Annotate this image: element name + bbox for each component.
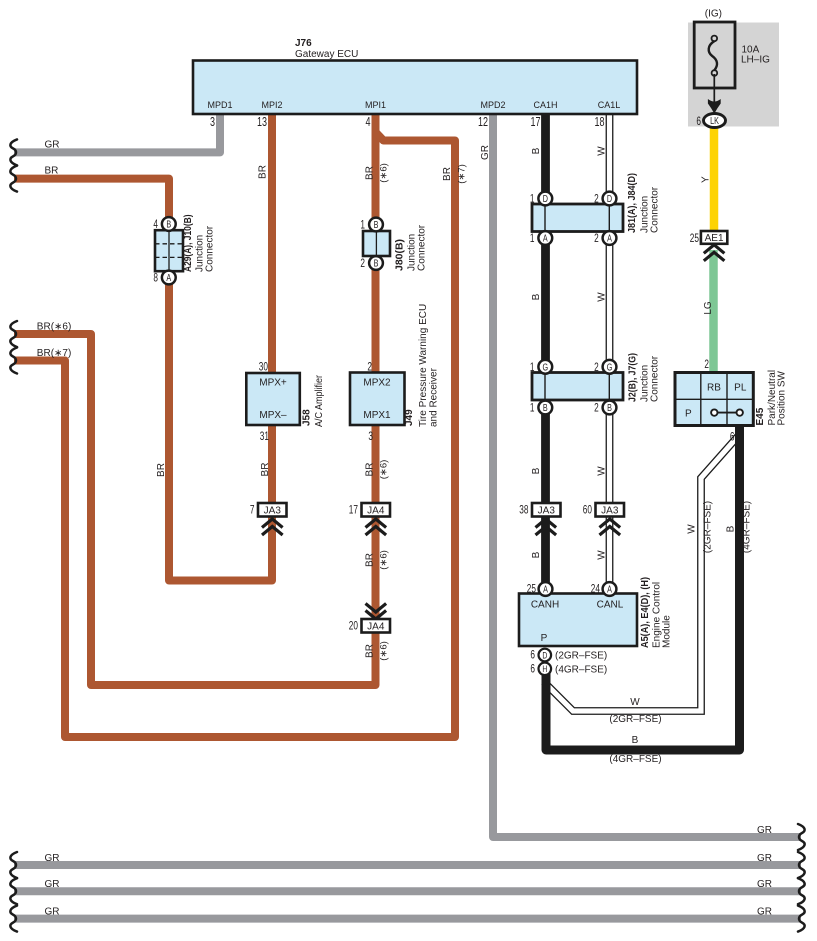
svg-text:A: A (166, 272, 171, 283)
svg-text:GR: GR (45, 906, 60, 917)
wire GR from MPD1 to left edge (14, 114, 220, 152)
wire BR(*7) branch from MPI1 down around to left edge (14, 126, 455, 737)
svg-text:J58: J58 (302, 409, 313, 426)
junction connector J2(B), J7(G) (530, 353, 661, 415)
svg-text:Connector: Connector (650, 355, 661, 402)
svg-text:60: 60 (583, 504, 593, 517)
svg-text:Module: Module (662, 615, 673, 648)
svg-text:A5(A), E4(D), (H): A5(A), E4(D), (H) (640, 577, 651, 648)
svg-text:(∗6): (∗6) (379, 460, 390, 480)
svg-text:2: 2 (360, 258, 365, 271)
svg-text:Y: Y (701, 176, 712, 183)
svg-text:MPX2: MPX2 (363, 378, 391, 389)
svg-text:38: 38 (519, 504, 529, 517)
svg-text:B: B (374, 219, 379, 230)
svg-text:2: 2 (367, 361, 372, 374)
svg-text:D: D (542, 650, 547, 660)
svg-text:W: W (687, 524, 698, 534)
connector AE1 (25) (690, 231, 728, 245)
svg-text:3: 3 (210, 116, 215, 130)
svg-text:BR(∗6): BR(∗6) (37, 321, 72, 332)
wire B J81 to J2 (541, 231, 550, 374)
wire BR MPI2 to J58 (268, 114, 276, 374)
svg-text:(∗6): (∗6) (379, 641, 390, 661)
svg-text:LH–IG: LH–IG (741, 55, 770, 66)
svg-text:A29(A), J10(B): A29(A), J10(B) (183, 215, 194, 273)
wire W J81 to J2 (606, 231, 614, 374)
wire BR JA4(17) to JA4(20) (372, 515, 380, 620)
svg-text:B: B (531, 551, 542, 558)
junction connector A29(A), J10(B) (153, 215, 215, 285)
svg-text:1: 1 (530, 233, 535, 246)
svg-text:1: 1 (530, 362, 535, 375)
wire B J2 to JA3(38) (541, 400, 550, 505)
svg-text:JA3: JA3 (601, 506, 619, 517)
svg-text:D: D (607, 193, 612, 204)
connector JA3 (38) (519, 503, 560, 517)
svg-text:GR: GR (480, 145, 491, 160)
wire B (4GR-FSE) from ECM H(6) to E45 pin 6 (546, 424, 740, 750)
svg-text:6: 6 (696, 116, 701, 129)
svg-text:JA4: JA4 (367, 622, 385, 633)
svg-text:W: W (597, 466, 608, 476)
svg-text:J76: J76 (295, 38, 312, 49)
svg-text:8: 8 (153, 272, 158, 285)
svg-text:and Receiver: and Receiver (429, 367, 440, 427)
svg-text:W: W (597, 292, 608, 302)
svg-text:J2(B), J7(G): J2(B), J7(G) (628, 353, 639, 402)
svg-text:4: 4 (153, 219, 158, 232)
svg-text:13: 13 (257, 116, 267, 130)
svg-text:B: B (374, 257, 379, 268)
svg-text:24: 24 (591, 583, 601, 596)
svg-text:BR: BR (260, 463, 271, 477)
svg-text:BR: BR (365, 553, 376, 567)
svg-text:2: 2 (704, 359, 709, 372)
svg-text:MPD2: MPD2 (480, 100, 505, 110)
svg-text:MPI2: MPI2 (261, 100, 282, 110)
svg-text:A: A (607, 232, 612, 243)
svg-text:2: 2 (594, 362, 599, 375)
shield chevron below JA3(60) (600, 519, 621, 535)
shield chevron below JA3(38) (536, 519, 557, 535)
svg-text:7: 7 (250, 504, 255, 517)
ECU J76 box (193, 38, 637, 114)
svg-text:G: G (607, 361, 613, 372)
svg-text:GR: GR (45, 139, 60, 150)
svg-text:25: 25 (690, 233, 700, 246)
svg-text:BR: BR (365, 644, 376, 658)
shield chevron above JA4(20) (366, 604, 387, 620)
svg-text:20: 20 (349, 620, 359, 633)
fuse 10A LH-IG (694, 9, 770, 89)
wire break squiggles right edge (798, 824, 805, 932)
svg-text:31: 31 (260, 431, 270, 444)
svg-text:A: A (607, 583, 612, 594)
connector JA4 (20) (349, 619, 390, 633)
svg-text:18: 18 (594, 116, 604, 130)
svg-text:1: 1 (530, 193, 535, 206)
svg-text:(2GR–FSE): (2GR–FSE) (555, 651, 607, 662)
svg-text:PL: PL (734, 383, 747, 394)
svg-text:E45: E45 (755, 407, 766, 425)
svg-text:(IG): (IG) (705, 9, 722, 20)
wire B JA3(38) to ECM A(25) (541, 515, 550, 585)
svg-text:4: 4 (365, 116, 370, 130)
svg-text:A: A (543, 583, 548, 594)
wire GR bottom 3 (14, 887, 801, 895)
wire BR J58 to JA3(7) (268, 424, 276, 505)
svg-text:B: B (543, 402, 548, 413)
wire B CA1H segment ECU to J81 (541, 114, 550, 206)
wire W CA1L segment ECU to J81 (606, 114, 614, 206)
wire GR bottom 2 (14, 861, 801, 869)
svg-text:BR: BR (258, 165, 269, 179)
svg-text:H: H (542, 664, 547, 674)
svg-text:(2GR–FSE): (2GR–FSE) (703, 501, 714, 553)
connector JA4 (17) (349, 503, 390, 517)
svg-text:17: 17 (349, 504, 359, 517)
wire W JA3(60) to ECM A(24) (606, 515, 614, 585)
svg-text:B: B (531, 293, 542, 300)
svg-text:Connector: Connector (650, 186, 661, 233)
wire W (2GR-FSE) white from ECM D(6) to E45 pin 6 (544, 434, 740, 711)
wire BR J49 to JA4(17) (372, 424, 380, 505)
svg-text:MPI1: MPI1 (365, 100, 386, 110)
svg-text:1: 1 (360, 219, 365, 232)
svg-text:A: A (543, 232, 548, 243)
svg-text:B: B (531, 467, 542, 474)
svg-text:B: B (607, 402, 612, 413)
junction connector J81(A), J84(D) (530, 173, 661, 245)
svg-text:JA3: JA3 (538, 506, 556, 517)
wire LG AE1 to E45 (709, 250, 718, 374)
wire break squiggles left edge (10, 139, 17, 931)
arrow from fuse to LK (708, 74, 721, 114)
svg-text:BR: BR (365, 166, 376, 180)
connector JA3 (7) (250, 503, 287, 517)
box J49 Tire Pressure Warning ECU and Receiver (350, 304, 440, 444)
svg-text:2: 2 (594, 233, 599, 246)
svg-text:BR: BR (442, 167, 453, 181)
svg-text:6: 6 (530, 663, 535, 676)
svg-text:17: 17 (530, 116, 540, 130)
svg-text:Position SW: Position SW (777, 370, 788, 425)
wire BR MPI1 to J49 (372, 114, 380, 374)
svg-text:CANH: CANH (531, 600, 559, 611)
svg-text:(∗6): (∗6) (379, 550, 390, 570)
svg-text:BR: BR (45, 166, 59, 177)
svg-text:(4GR–FSE): (4GR–FSE) (555, 664, 607, 675)
wire GR bottom 4 (14, 915, 801, 923)
wire W J2 to JA3(60) (606, 400, 614, 505)
svg-text:GR: GR (757, 879, 772, 890)
svg-text:B: B (531, 147, 542, 154)
svg-text:G: G (542, 361, 548, 372)
svg-text:GR: GR (757, 853, 772, 864)
shield chevron below AE1 (704, 245, 725, 261)
op box J58 A/C Amplifier (246, 361, 325, 443)
svg-text:(∗6): (∗6) (379, 163, 390, 183)
wire labels horizontal (37, 139, 772, 917)
shield chevron below JA4(17) (366, 519, 387, 535)
svg-text:MPD1: MPD1 (207, 100, 232, 110)
svg-text:6: 6 (530, 649, 535, 662)
svg-text:A/C Amplifier: A/C Amplifier (314, 374, 325, 427)
svg-text:30: 30 (259, 361, 269, 374)
svg-text:AE1: AE1 (705, 233, 724, 244)
svg-text:CA1L: CA1L (598, 100, 621, 110)
svg-text:D: D (543, 193, 548, 204)
svg-text:Connector: Connector (205, 225, 216, 272)
ECU pin numbers (210, 116, 605, 130)
wire labels rotated (156, 145, 753, 661)
svg-text:2: 2 (594, 402, 599, 415)
svg-text:GR: GR (45, 853, 60, 864)
svg-text:W: W (597, 146, 608, 156)
svg-text:BR: BR (365, 463, 376, 477)
svg-text:Gateway ECU: Gateway ECU (295, 49, 358, 60)
connector oval LK (6) (696, 114, 725, 129)
svg-text:LK: LK (710, 115, 719, 126)
svg-text:B: B (166, 218, 171, 229)
svg-text:MPX–: MPX– (259, 410, 287, 421)
svg-text:(∗7): (∗7) (457, 164, 468, 184)
svg-text:(2GR–FSE): (2GR–FSE) (609, 714, 661, 725)
svg-text:J49: J49 (404, 409, 415, 426)
svg-text:GR: GR (757, 906, 772, 917)
wire BR left to A29 junction down to JA3 link (14, 179, 272, 581)
wire Y fuse LK to AE1 (710, 126, 719, 233)
wire BR(*6) JA4(20) down around to left edge (14, 334, 376, 685)
svg-text:Connector: Connector (417, 224, 428, 271)
svg-text:J80(B): J80(B) (395, 239, 406, 271)
svg-text:W: W (630, 697, 640, 708)
svg-text:1: 1 (530, 402, 535, 415)
svg-text:J81(A), J84(D): J81(A), J84(D) (627, 173, 638, 233)
svg-text:Tire Pressure Warning ECU: Tire Pressure Warning ECU (418, 304, 429, 427)
shield chevron below JA3(7) (262, 519, 283, 535)
svg-text:JA3: JA3 (264, 506, 282, 517)
svg-text:BR: BR (156, 463, 167, 477)
svg-text:LG: LG (703, 301, 714, 315)
svg-text:(4GR–FSE): (4GR–FSE) (742, 501, 753, 553)
svg-text:25: 25 (527, 583, 537, 596)
svg-text:RB: RB (707, 383, 721, 394)
svg-text:2: 2 (594, 193, 599, 206)
svg-text:B: B (726, 525, 737, 532)
wire GR MPD2 long to bottom right (493, 114, 801, 837)
svg-text:GR: GR (757, 825, 772, 836)
connector JA3 (60) (583, 503, 624, 517)
svg-text:GR: GR (45, 879, 60, 890)
svg-text:MPX1: MPX1 (363, 410, 391, 421)
E45 Park/Neutral Position SW box (675, 359, 788, 444)
svg-text:B: B (632, 735, 639, 746)
svg-text:6: 6 (730, 431, 735, 444)
svg-text:P: P (685, 409, 692, 420)
svg-text:P: P (541, 633, 548, 644)
fuse panel background (688, 23, 779, 127)
svg-text:(4GR–FSE): (4GR–FSE) (609, 754, 661, 765)
svg-text:BR(∗7): BR(∗7) (37, 348, 72, 359)
svg-text:MPX+: MPX+ (259, 378, 287, 389)
svg-text:JA4: JA4 (367, 506, 385, 517)
svg-text:3: 3 (368, 431, 373, 444)
svg-text:CA1H: CA1H (533, 100, 557, 110)
junction connector J80(B) (360, 218, 427, 271)
svg-text:W: W (597, 550, 608, 560)
svg-text:CANL: CANL (597, 600, 624, 611)
ECM box A5(A), E4(D), (H) Engine Control Module (519, 577, 673, 676)
svg-text:12: 12 (478, 116, 488, 130)
